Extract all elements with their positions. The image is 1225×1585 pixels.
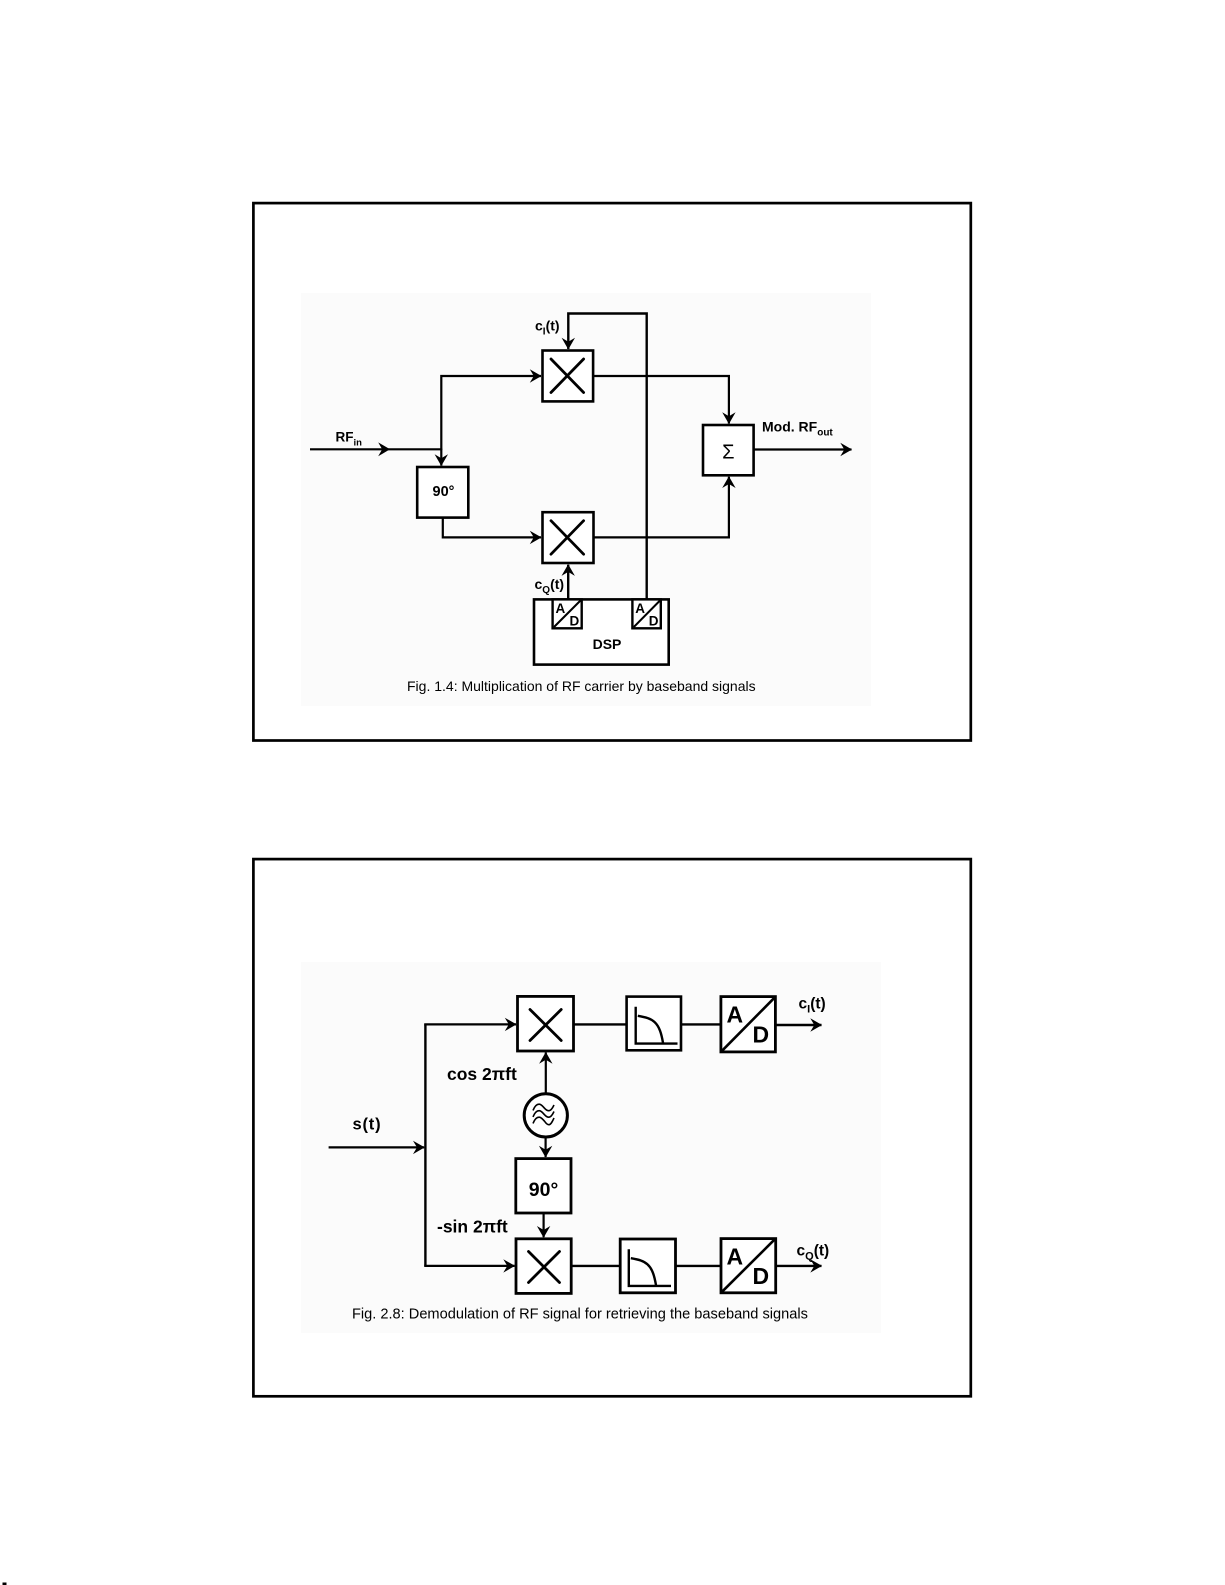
wire trunk down to 90 box [440,449,442,466]
svg-text:D: D [570,613,580,628]
svg-text:cos 2πft: cos 2πft [447,1064,517,1084]
slide 1 frame [253,203,970,740]
wire s(t) input [329,1146,425,1148]
mixer 4 (Q demodulator) [516,1239,571,1294]
svg-text:D: D [753,1263,770,1289]
svg-text:Fig. 2.8: Demodulation of RF s: Fig. 2.8: Demodulation of RF signal for … [352,1307,808,1323]
slide 2 frame [253,859,970,1396]
wire 90 box 2 to mixer 4 [542,1213,544,1237]
90 degree phase shifter box 1 [417,467,468,518]
wire c_I output [775,1024,821,1026]
svg-text:Σ: Σ [722,442,734,464]
wire mixer 3 to LPF 1 [574,1023,627,1025]
wire branch to mixer 3 [424,1023,516,1025]
wire c_Q from DSP to mixer Q [567,565,569,600]
A/D converter 2 [632,599,660,628]
wire mixer I output to summer [593,376,729,424]
wire trunk up to mixer I [441,376,541,450]
wire RF_in input [310,448,441,450]
A/D converter 4 [721,1239,776,1293]
low-pass filter 2 [620,1239,675,1293]
wire mixer Q output to summer [594,477,729,538]
wire oscillator to mixer 3 [545,1053,547,1094]
slide 2 diagram background [301,962,881,1333]
svg-text:A: A [635,601,645,616]
wire mixer 4 to LPF 2 [571,1265,620,1267]
svg-text:s(t): s(t) [353,1116,382,1134]
wire branch to mixer 4 [424,1265,514,1267]
svg-text:A: A [727,1002,744,1028]
wire LPF 2 to A/D 4 [676,1265,722,1267]
arrowhead on RF_in wire [378,442,390,456]
wire LPF 1 to A/D 3 [681,1023,721,1025]
wire c_Q output [776,1265,822,1267]
svg-text:A: A [727,1243,744,1269]
oscillator [524,1094,567,1137]
A/D converter 1 [553,599,582,628]
svg-text:D: D [649,613,659,628]
wire c_I feedback from A/D 2 to mixer I [568,314,646,600]
slide 1 diagram background [301,293,871,706]
svg-text:A: A [556,601,566,616]
mixer 3 (I demodulator) [518,996,574,1051]
wire trunk vertical [424,1024,426,1266]
svg-text:Fig. 1.4: Multiplication of RF: Fig. 1.4: Multiplication of RF carrier b… [407,678,756,694]
wire Mod RF out [754,448,852,450]
svg-text:90°: 90° [433,484,455,500]
mixer I (multiplier) [543,351,594,402]
wire 90 box to mixer Q [443,518,541,538]
low-pass filter 1 [627,997,681,1051]
DSP box [534,599,669,664]
svg-text:DSP: DSP [593,636,622,652]
svg-text:D: D [753,1021,770,1047]
A/D converter 3 [721,997,776,1052]
svg-text:-sin 2πft: -sin 2πft [437,1217,508,1237]
mixer Q (multiplier) [543,512,594,563]
90 degree phase shifter box 2 [516,1159,571,1213]
page corner dot [3,1583,7,1585]
svg-text:90°: 90° [529,1179,559,1201]
wire oscillator to 90 box 2 [544,1137,546,1157]
summer sigma box [703,425,754,475]
